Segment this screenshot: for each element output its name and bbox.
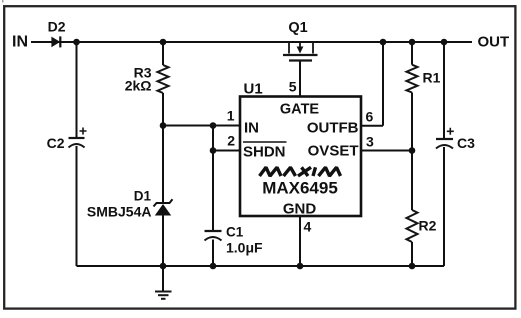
svg-text:GATE: GATE bbox=[280, 102, 320, 118]
svg-text:OUTFB: OUTFB bbox=[307, 120, 359, 137]
svg-text:SMBJ54A: SMBJ54A bbox=[87, 204, 152, 220]
svg-text:R2: R2 bbox=[419, 218, 437, 234]
svg-text:OVSET: OVSET bbox=[308, 143, 359, 160]
svg-text:3: 3 bbox=[366, 134, 374, 150]
svg-text:D1: D1 bbox=[134, 189, 152, 204]
svg-text:4: 4 bbox=[304, 219, 312, 235]
svg-text:5: 5 bbox=[289, 79, 297, 95]
svg-text:GND: GND bbox=[283, 201, 317, 218]
svg-text:U1: U1 bbox=[244, 81, 263, 98]
svg-text:Q1: Q1 bbox=[288, 20, 307, 36]
svg-text:D2: D2 bbox=[48, 19, 66, 35]
svg-text:1.0μF: 1.0μF bbox=[226, 240, 263, 256]
svg-text:C1: C1 bbox=[226, 225, 244, 240]
svg-text:OUT: OUT bbox=[478, 34, 510, 51]
svg-text:C3: C3 bbox=[457, 135, 475, 151]
svg-text:IN: IN bbox=[12, 33, 28, 50]
svg-text:MAX6495: MAX6495 bbox=[262, 179, 338, 198]
svg-text:2: 2 bbox=[227, 133, 235, 149]
svg-text:C2: C2 bbox=[47, 135, 65, 151]
svg-text:SHDN: SHDN bbox=[243, 144, 286, 161]
svg-text:R1: R1 bbox=[423, 70, 441, 86]
svg-text:IN: IN bbox=[244, 120, 259, 137]
svg-text:6: 6 bbox=[366, 109, 374, 125]
svg-text:2kΩ: 2kΩ bbox=[125, 78, 152, 94]
svg-text:1: 1 bbox=[227, 108, 235, 124]
